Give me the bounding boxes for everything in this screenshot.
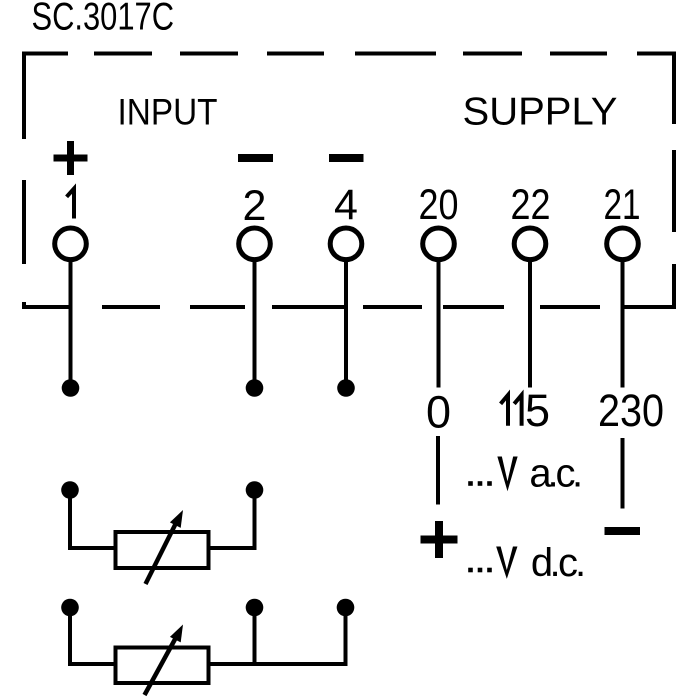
svg-text:5: 5	[525, 385, 550, 436]
svg-text:20: 20	[419, 181, 459, 229]
svg-text:230: 230	[598, 385, 664, 436]
svg-text:d.c.: d.c.	[531, 541, 586, 585]
svg-text:0: 0	[426, 387, 451, 438]
svg-text:INPUT: INPUT	[118, 91, 218, 133]
svg-text:22: 22	[511, 181, 551, 229]
svg-text:21: 21	[604, 181, 641, 229]
svg-text:2: 2	[243, 182, 267, 230]
svg-text:SC.3017C: SC.3017C	[32, 0, 175, 39]
svg-text:SUPPLY: SUPPLY	[463, 91, 618, 134]
svg-text:a.c.: a.c.	[529, 452, 583, 496]
svg-text:4: 4	[334, 181, 358, 229]
